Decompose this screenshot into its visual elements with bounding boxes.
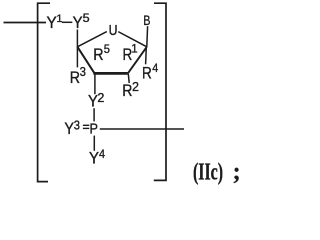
svg-text:Y: Y xyxy=(89,150,99,168)
svg-text:B: B xyxy=(143,12,150,28)
bond B-C1 xyxy=(146,26,149,47)
svg-text:4: 4 xyxy=(152,61,158,75)
ring bond C2-C1 xyxy=(128,47,147,74)
svg-text:1: 1 xyxy=(131,43,137,55)
svg-text:Y: Y xyxy=(47,14,57,32)
svg-text:R: R xyxy=(93,46,103,64)
ring bond C3-C2 bold xyxy=(93,72,127,75)
bond P-Y4 xyxy=(93,136,95,151)
wire P right attachment bond xyxy=(100,128,184,130)
svg-text:Y: Y xyxy=(73,14,83,32)
wire left attachment bond xyxy=(4,22,47,24)
bond C2-R2 xyxy=(127,74,130,83)
bond C1-R4 xyxy=(145,47,148,64)
bond C4-R3 xyxy=(76,47,78,68)
double bond Y3=P lower xyxy=(83,127,89,129)
left polymer bracket xyxy=(38,3,50,181)
svg-text:P: P xyxy=(90,121,98,137)
svg-text:R: R xyxy=(142,65,152,83)
right polymer bracket xyxy=(154,3,166,180)
bond Y5-C4 xyxy=(76,30,78,48)
svg-text:5: 5 xyxy=(83,13,90,25)
svg-text:3: 3 xyxy=(74,118,80,132)
bond Y1-Y5 xyxy=(62,21,73,23)
bond Y2-P xyxy=(93,108,95,121)
bond U-C1 xyxy=(118,32,147,47)
svg-text:2: 2 xyxy=(97,91,104,105)
svg-text:3: 3 xyxy=(80,65,86,79)
svg-text:2: 2 xyxy=(132,79,139,94)
svg-text:;: ; xyxy=(233,159,240,185)
svg-text:1: 1 xyxy=(56,13,62,25)
svg-text:(IIc): (IIc) xyxy=(193,160,223,186)
svg-text:Y: Y xyxy=(64,120,74,138)
svg-text:R: R xyxy=(122,82,132,100)
bond C3-Y2 xyxy=(94,74,96,94)
bond U-C4 xyxy=(77,32,106,47)
ring bond C4-C3 xyxy=(77,47,94,74)
svg-text:5: 5 xyxy=(104,44,110,56)
svg-text:U: U xyxy=(109,23,118,39)
svg-text:4: 4 xyxy=(99,147,105,161)
double bond Y3=P upper xyxy=(83,124,89,126)
